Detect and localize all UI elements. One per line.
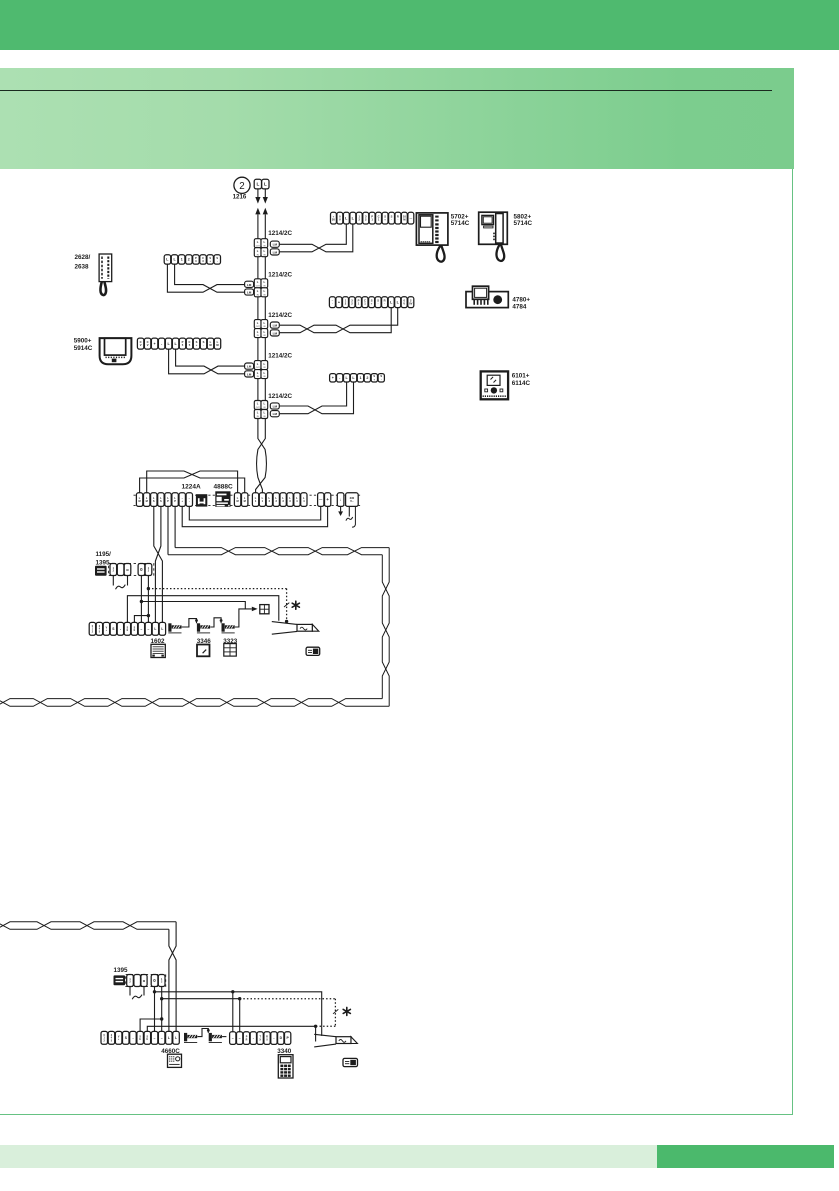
wire bus segment 4 [257, 379, 259, 401]
svg-text:~: ~ [140, 628, 142, 632]
wire sec2 drop to lock [315, 1026, 317, 1041]
svg-text:-: - [332, 303, 333, 306]
twisted pair riser bottom run [0, 699, 389, 707]
distributor 1214/2C block 4 [245, 361, 268, 379]
wire bus twist into central unit [256, 419, 267, 493]
arrow up right [263, 208, 268, 215]
svg-text:L: L [257, 280, 259, 284]
svg-text:4784: 4784 [512, 303, 527, 310]
terminal L (riser up, right) [262, 179, 269, 189]
svg-text:1: 1 [181, 258, 183, 262]
svg-text:L: L [256, 182, 259, 187]
dotted line lock supply [148, 588, 286, 590]
label 1214/2C (4) [268, 353, 292, 360]
call module grid icon [260, 605, 269, 614]
entrance unit 6101+6114C icon [481, 371, 508, 399]
psu2 mains input wires with tilde [129, 987, 131, 996]
svg-text:L: L [264, 280, 266, 284]
wire row1 L to LM (lower) [280, 224, 347, 252]
ac adapter icon upper [306, 647, 320, 655]
svg-text:L: L [264, 402, 266, 406]
svg-text:S: S [153, 499, 155, 503]
break mark on dotted sec2 [333, 1009, 338, 1013]
psu mains input wires with tilde [112, 576, 114, 586]
doorphone 5802+5714C icon [479, 212, 508, 244]
asterisk note lower [343, 1007, 350, 1015]
label 5802+5714C [514, 213, 533, 227]
wire row3 L to LM (upper, two twists) [280, 308, 398, 333]
twisted pair section2 descent with cross [169, 922, 176, 1032]
svg-text:L: L [257, 411, 259, 415]
break mark on dotted [284, 603, 289, 607]
psu2 terminal in2 [134, 975, 141, 987]
svg-text:L: L [168, 1036, 170, 1040]
label 1216 [233, 193, 247, 200]
lock release A (on 4660C) [184, 1033, 197, 1043]
svg-text:-: - [273, 1036, 274, 1040]
junction dot A [147, 587, 150, 590]
terminal strip row5 (6101 connections) [330, 374, 385, 382]
svg-text:L: L [257, 289, 259, 293]
ac adapter icon lower [343, 1058, 358, 1066]
svg-text:-: - [378, 303, 379, 306]
wire psu2 0 down [154, 987, 156, 1032]
svg-text:L: L [175, 1036, 177, 1040]
svg-text:-: - [217, 260, 218, 263]
svg-text:LM: LM [247, 365, 252, 369]
wire plus-minus link outer [182, 506, 327, 526]
svg-text:2: 2 [239, 181, 244, 192]
svg-text:P: P [167, 499, 169, 503]
svg-text:1: 1 [359, 376, 361, 380]
arrow into call module [252, 607, 258, 612]
svg-text:L: L [264, 330, 266, 334]
wire psu 12 down to 1602 [147, 576, 149, 623]
terminal strip row1 (monitor 5702 connections) [331, 212, 414, 224]
svg-text:-: - [381, 378, 382, 381]
svg-text:LM: LM [273, 405, 278, 409]
wire sec2 line B solid part [162, 998, 240, 1000]
svg-text:↓: ↓ [340, 497, 342, 502]
wire step lockA-lockB [197, 1029, 208, 1037]
junction dot B [140, 600, 143, 603]
svg-text:L: L [257, 371, 259, 375]
svg-text:L: L [264, 182, 267, 187]
svg-text:-: - [391, 219, 392, 222]
svg-text:LM: LM [247, 283, 252, 287]
junction dot D [153, 990, 156, 993]
svg-text:L: L [257, 402, 259, 406]
dashed box psu terminals [109, 563, 154, 575]
svg-text:1214/2C: 1214/2C [268, 312, 292, 319]
svg-text:LM: LM [273, 250, 278, 254]
transformer 1195/1395 icon [95, 566, 107, 576]
terminal strip row4 (5900 connections) [137, 338, 220, 349]
lock release 3 [222, 623, 235, 633]
arrow down right [263, 197, 268, 204]
wire row2 L to LM (upper) [175, 264, 245, 292]
terminal strip 3340 connections [230, 1032, 291, 1045]
svg-text:+: + [154, 342, 156, 346]
svg-text:M: M [146, 499, 148, 503]
terminal strip central risers L1-L4 [252, 493, 307, 507]
svg-text:5914C: 5914C [74, 345, 93, 352]
svg-text:5714C: 5714C [451, 220, 470, 227]
dashed box psu2 terminals [126, 974, 166, 986]
dashed rail of central unit [134, 494, 361, 496]
mains pigtail right [352, 506, 355, 527]
wire plus-minus link inner [189, 506, 320, 520]
label 1195/1395 [96, 551, 112, 567]
wire loop LM-left to LM (line 1) [140, 471, 238, 493]
svg-text:+: + [338, 300, 340, 304]
mains pigtail left with tilde [348, 506, 350, 516]
psu terminal in1 [110, 564, 117, 576]
panel 4660C icon [168, 1054, 182, 1067]
distributor 1214/2C block 3 [254, 320, 279, 338]
svg-text:L: L [161, 627, 163, 631]
svg-text:+: + [332, 376, 334, 380]
svg-text:1214/2C: 1214/2C [268, 230, 292, 237]
keypad 3340 icon [278, 1055, 293, 1078]
label 3323 [223, 638, 238, 645]
svg-text:6101+: 6101+ [512, 372, 530, 379]
wire bus segment 3 [257, 338, 259, 361]
svg-text:~: ~ [154, 1037, 156, 1041]
lock release 2 [197, 623, 210, 633]
label 1214/2C (1) [268, 230, 292, 237]
svg-text:1214/2C: 1214/2C [268, 393, 292, 400]
terminal strip row3 (4780 connections) [329, 297, 413, 308]
svg-text:L: L [264, 362, 266, 366]
label 1214/2C (2) [268, 271, 292, 278]
svg-text:LM: LM [247, 291, 252, 295]
wire step lock3 up [235, 609, 245, 627]
svg-text:R: R [246, 1038, 248, 1041]
svg-text:V: V [147, 343, 149, 347]
wire loop LM-left to LM (line 2) [147, 471, 245, 493]
svg-text:+: + [326, 497, 329, 502]
svg-text:LM: LM [247, 372, 252, 376]
svg-text:1214/2C: 1214/2C [268, 271, 292, 278]
wire row5 L to LM (lower) [280, 382, 347, 414]
wire sec2 line C [147, 1026, 315, 1031]
wire row2 L to LM (lower) [167, 264, 244, 292]
wire psu2 12 down [161, 987, 163, 1032]
label 1214/2C (5) [268, 393, 292, 400]
wire bracket to SE [134, 616, 148, 623]
wire row4 L to LM (lower) [169, 349, 245, 374]
wire from psu0 to call module [141, 602, 251, 609]
wire row3 L to LM (lower, two twists) [280, 308, 391, 333]
terminal strip central-left (LM LS LP power) [136, 493, 192, 507]
svg-text:LM: LM [273, 331, 278, 335]
svg-text:L: L [264, 371, 266, 375]
wire row1 L to LM (upper) [280, 224, 353, 252]
svg-text:-: - [397, 219, 398, 222]
psu terminal 12 [145, 564, 152, 576]
speaker unit 4780+4784 icon [466, 286, 508, 307]
handset cord of 5802 [496, 244, 504, 261]
electric lock release lower [314, 1034, 357, 1047]
wire sec2 drop to strip2 t2 [239, 999, 241, 1032]
svg-text:5900+: 5900+ [74, 337, 92, 344]
twisted pair riser top run [175, 548, 389, 555]
terminal minus [318, 493, 324, 507]
wire row5 L to LM (upper) [280, 382, 354, 414]
terminal strip 1602 entrance panel [89, 622, 165, 635]
label 4780+4784 [512, 297, 530, 311]
twisted pair section2 run [0, 922, 176, 930]
module 3323 icon [224, 644, 237, 657]
svg-text:1216: 1216 [233, 193, 247, 200]
terminal strip central LM pair [234, 493, 248, 507]
node 2 riser label (circled 2) [234, 177, 250, 193]
svg-text:1214/2C: 1214/2C [268, 353, 292, 360]
label 1602 [150, 638, 165, 645]
terminal earth [337, 493, 344, 507]
doorphone 2628/2638 icon [99, 254, 112, 282]
junction dot I [314, 1025, 317, 1028]
svg-text:L: L [257, 249, 259, 253]
wire start LP left [167, 506, 169, 554]
wire central LS to 1602 L (cross b) [155, 506, 161, 622]
svg-text:-: - [384, 303, 385, 306]
label 2628/2638 [75, 254, 91, 271]
svg-text:20: 20 [332, 218, 335, 222]
svg-text:~: ~ [239, 1037, 241, 1041]
junction dot G [231, 990, 234, 993]
svg-text:5714C: 5714C [514, 220, 533, 227]
svg-text:6114C: 6114C [512, 380, 531, 387]
svg-text:V: V [403, 302, 405, 306]
label 5900+5914C [74, 337, 93, 352]
junction dot at lock dotted [285, 620, 288, 623]
terminal mains 230V [346, 493, 359, 507]
svg-text:—: — [409, 217, 412, 220]
monitor 5900+5914C icon [100, 338, 132, 364]
wire bracket to SE2 [140, 1019, 162, 1031]
svg-text:LM: LM [273, 412, 278, 416]
svg-text:LM: LM [273, 243, 278, 247]
wire step lock1-lock2 [182, 619, 197, 627]
handset cord of 5702 [437, 245, 445, 261]
wire sec2 line A [155, 992, 322, 1036]
svg-text:L: L [257, 330, 259, 334]
svg-text:L: L [264, 411, 266, 415]
junction dot H [238, 997, 241, 1000]
svg-text:-: - [132, 1036, 133, 1040]
psu2 terminal in1 [127, 975, 134, 987]
svg-text:L: L [264, 289, 266, 293]
label 3340 [277, 1048, 292, 1055]
wire psu 0 down to 1602 [140, 576, 142, 623]
label 4888C [214, 483, 233, 490]
svg-text:2638: 2638 [75, 264, 90, 271]
psu terminal 0 [138, 564, 145, 576]
terminal plus [325, 493, 331, 507]
svg-text:L: L [257, 240, 259, 244]
svg-text:M: M [139, 499, 141, 503]
svg-text:-: - [189, 500, 190, 503]
speaker module icon under 1602 [151, 644, 165, 657]
svg-text:-: - [120, 627, 121, 631]
svg-text:~: ~ [161, 1037, 163, 1041]
label 1224A [182, 483, 201, 490]
terminal L (riser up, left) [254, 179, 261, 189]
svg-text:1395: 1395 [96, 560, 111, 567]
svg-text:0V: 0V [409, 302, 412, 306]
svg-text:~: ~ [147, 628, 149, 632]
earth wire and symbol [340, 506, 342, 511]
electric lock release upper [272, 622, 319, 635]
svg-text:1395: 1395 [114, 967, 129, 974]
svg-text:L: L [154, 627, 156, 631]
svg-text:V: V [140, 343, 142, 347]
svg-text:1224A: 1224A [182, 483, 201, 490]
distributor 1214/2C block 5 [254, 401, 279, 419]
svg-text:L: L [264, 249, 266, 253]
svg-text:L: L [257, 321, 259, 325]
svg-text:L: L [257, 362, 259, 366]
wire central LS to 1602 L (cross a) [154, 506, 163, 622]
svg-text:L: L [264, 321, 266, 325]
power unit 1224A icon [196, 494, 207, 506]
dotted line lock supply sec2 [240, 998, 336, 1000]
wire row4 L to LM (upper) [176, 349, 245, 374]
wire riser stub left [257, 189, 259, 197]
label 1214/2C (3) [268, 312, 292, 319]
svg-text:~: ~ [232, 1037, 234, 1041]
svg-text:4888C: 4888C [214, 483, 233, 490]
psu2 terminal 0 [151, 975, 158, 987]
wire step lock2-lock3 [210, 618, 221, 627]
svg-text:2: 2 [366, 376, 368, 380]
label 6101+6114C [512, 372, 531, 387]
svg-text:P: P [174, 499, 176, 503]
monitor 5702+5714C icon [416, 213, 448, 245]
lock release B [209, 1033, 222, 1043]
terminal strip row2 (2628 connections) [164, 255, 220, 264]
psu2 terminal in3 [141, 975, 147, 987]
wire bus segment 2 [257, 297, 259, 320]
module 3346 icon [197, 645, 210, 657]
wire bus to distributor 1 [257, 214, 259, 238]
transformer 1395 icon [114, 975, 126, 985]
svg-text:S: S [160, 499, 162, 503]
arrow down left [255, 197, 260, 204]
svg-text:2: 2 [188, 258, 190, 262]
label 3346 [197, 638, 212, 645]
svg-text:L: L [264, 240, 266, 244]
asterisk note upper [292, 601, 299, 609]
svg-text:LM: LM [273, 324, 278, 328]
wire sec2 drop to strip2 t1 [232, 992, 234, 1032]
distributor 1214/2C block 2 [245, 279, 268, 297]
wire bus segment 1 [257, 257, 259, 279]
lock release 1 (on 1602) [168, 623, 181, 633]
label 5702+5714C [451, 213, 470, 227]
svg-text:2628/: 2628/ [75, 254, 91, 261]
wire lock drive solid [127, 596, 278, 623]
label 1395 [114, 967, 129, 974]
junction dot C [147, 614, 150, 617]
wire riser stub right [264, 189, 266, 197]
handset cord of 2628 [100, 282, 106, 295]
svg-text:V: V [339, 218, 341, 222]
psu2 terminal 12 [158, 975, 165, 987]
switching unit 4888C icon [215, 491, 230, 507]
svg-text:V~: V~ [350, 499, 354, 503]
terminal strip 4660C entrance panel [101, 1031, 179, 1044]
svg-text:-: - [203, 344, 204, 347]
junction dot F [160, 1017, 163, 1020]
svg-text:1195/: 1195/ [96, 551, 112, 558]
psu terminal in3 [124, 564, 131, 576]
wire stub lockB [222, 1036, 226, 1038]
psu terminal in2 [117, 564, 124, 576]
svg-text:-: - [253, 1036, 254, 1040]
svg-text:M: M [244, 499, 246, 503]
svg-text:3340: 3340 [277, 1048, 292, 1055]
twisted pair riser right run [382, 555, 389, 707]
svg-text:M: M [237, 499, 239, 503]
distributor 1214/2C block 1 [254, 239, 279, 257]
label 4660C [161, 1048, 180, 1055]
junction dot E [160, 997, 163, 1000]
arrow up left [255, 208, 260, 215]
